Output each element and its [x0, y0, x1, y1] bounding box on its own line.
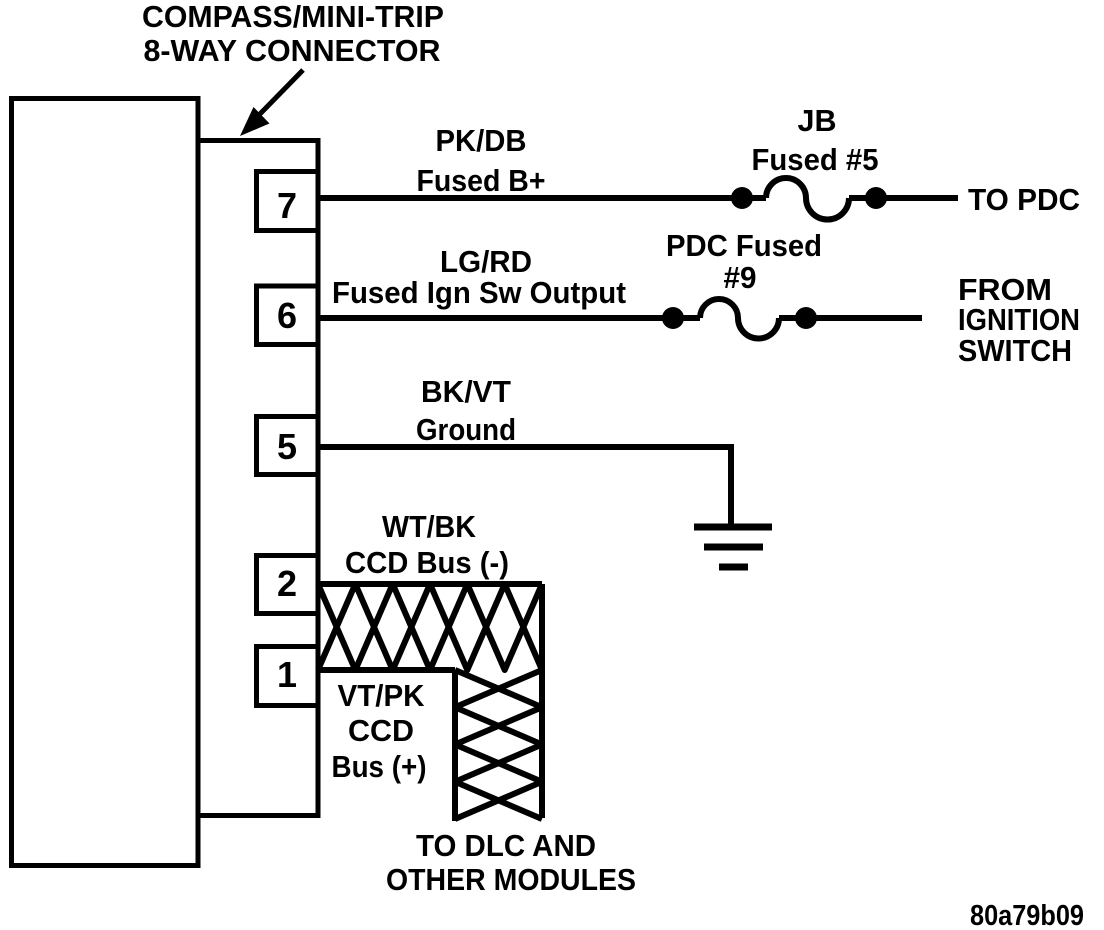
junction dot right of fuse JB#5 [865, 187, 887, 209]
junction dot left of fuse PDC#9 [662, 307, 684, 329]
svg-text:JB: JB [798, 103, 837, 138]
label BK/VT Ground [416, 374, 516, 447]
leader arrow to connector [240, 70, 303, 136]
twisted pair crosshatch (horizontal band zigzag B) [318, 584, 542, 670]
svg-text:2: 2 [277, 563, 297, 604]
svg-text:5: 5 [277, 426, 297, 467]
svg-text:#9: #9 [724, 260, 757, 295]
svg-text:BK/VT: BK/VT [421, 374, 511, 409]
svg-text:Bus (+): Bus (+) [332, 749, 427, 784]
svg-text:LG/RD: LG/RD [440, 244, 532, 279]
svg-text:Fused #5: Fused #5 [752, 142, 879, 177]
svg-text:TO PDC: TO PDC [968, 182, 1080, 217]
svg-text:PK/DB: PK/DB [436, 123, 527, 158]
twisted pair crosshatch (vertical band zigzag B) [455, 670, 542, 819]
wire fuse to ignition switch [779, 315, 922, 321]
twisted pair crosshatch (vertical band zigzag A) [455, 670, 542, 819]
twisted pair CCD Bus vertical band: left wire [452, 670, 458, 821]
label PDC Fused #9 [666, 228, 822, 295]
svg-text:COMPASS/MINI-TRIP: COMPASS/MINI-TRIP [142, 0, 444, 34]
twisted pair crosshatch (horizontal band zigzag A) [318, 584, 542, 670]
svg-text:Fused B+: Fused B+ [417, 163, 546, 198]
svg-text:IGNITION: IGNITION [958, 302, 1080, 337]
twisted pair CCD Bus horizontal band: bottom wire from pin 1 [316, 667, 455, 673]
svg-text:7: 7 [277, 185, 297, 226]
wire fuse to PDC [849, 195, 958, 201]
svg-text:8-WAY CONNECTOR: 8-WAY CONNECTOR [144, 33, 441, 68]
label LG/RD Fused Ign Sw Output [332, 244, 626, 310]
junction dot right of fuse PDC#9 [795, 307, 817, 329]
svg-text:6: 6 [277, 295, 297, 336]
wire BK/VT Ground (pin 5, horizontal) [316, 444, 734, 450]
svg-text:SWITCH: SWITCH [958, 333, 1072, 368]
label JB Fused #5 [752, 103, 879, 177]
wire ground drop (vertical) [728, 447, 734, 530]
fuse PDC Fused #9 [700, 299, 779, 339]
svg-text:1: 1 [277, 654, 297, 695]
label FROM IGNITION SWITCH [958, 272, 1080, 368]
junction dot left of fuse JB#5 [731, 187, 753, 209]
svg-text:TO DLC AND: TO DLC AND [416, 828, 596, 863]
pin 6 box [257, 286, 319, 345]
svg-text:CCD Bus (-): CCD Bus (-) [345, 545, 509, 580]
label VT/PK CCD Bus (+) [332, 678, 427, 784]
svg-text:Ground: Ground [416, 412, 516, 447]
twisted pair CCD Bus vertical band: right wire [539, 584, 545, 818]
wire PK/DB Fused B+ (pin 7 to fuse) [316, 195, 766, 201]
label PK/DB Fused B+ [417, 123, 546, 198]
connector body (8-way connector) [198, 141, 318, 816]
svg-text:80a79b09: 80a79b09 [970, 900, 1084, 930]
connector title label [142, 0, 444, 68]
label TO DLC AND OTHER MODULES [386, 828, 636, 897]
ground symbol [694, 527, 772, 567]
svg-text:VT/PK: VT/PK [338, 678, 426, 713]
svg-text:Fused Ign Sw Output: Fused Ign Sw Output [332, 275, 626, 310]
label WT/BK CCD Bus (-) [345, 509, 509, 580]
wire LG/RD Fused Ign Sw Output (pin 6 to fuse) [316, 315, 700, 321]
pin 1 box [257, 647, 319, 706]
pin 7 box [257, 172, 319, 231]
twisted pair CCD Bus horizontal band: top wire from pin 2 [316, 581, 542, 587]
pin 5 box [257, 417, 319, 475]
svg-text:OTHER MODULES: OTHER MODULES [386, 862, 636, 897]
svg-text:PDC Fused: PDC Fused [666, 228, 822, 263]
fuse JB Fused #5 [766, 178, 849, 219]
svg-text:WT/BK: WT/BK [382, 509, 477, 544]
pin 2 box [257, 556, 319, 614]
svg-text:CCD: CCD [348, 713, 414, 748]
module body (compass/mini-trip module) [12, 99, 199, 866]
